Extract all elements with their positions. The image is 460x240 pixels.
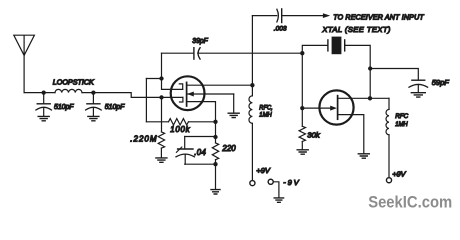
svg-text:RFC,: RFC, (259, 105, 273, 112)
wire Q1 drain (187, 84, 253, 86)
transistor Q2 circle (319, 90, 353, 124)
Q1 substrate lead (187, 93, 234, 95)
svg-text:.003: .003 (274, 26, 287, 33)
svg-text:TO RECEIVER ANT INPUT: TO RECEIVER ANT INPUT (333, 14, 424, 22)
capacitor .003 (274, 9, 287, 33)
node source / 100k junction (213, 120, 217, 124)
wire Q1 source (187, 102, 216, 122)
resistor 220 (212, 122, 236, 164)
Q1 substrate arrow (187, 92, 194, 97)
svg-text:30k: 30k (307, 130, 321, 139)
wire 39pF drop to gate1 node (161, 53, 163, 78)
svg-text:1MH: 1MH (395, 121, 408, 128)
wire drain vertical riser (251, 16, 253, 86)
wire 220 bottom to ground (215, 164, 217, 189)
node gate1 junction (159, 76, 163, 80)
wire xtal right branch (345, 45, 371, 68)
svg-text:1MH: 1MH (259, 112, 272, 119)
wire left branch vertical to 100k (145, 79, 147, 122)
Q2 channel bar (337, 96, 339, 120)
svg-text:LOOPSTICK: LOOPSTICK (53, 78, 95, 87)
ground under .220M (156, 158, 167, 162)
capacitor C 510pF right (86, 93, 125, 117)
svg-text:59pF: 59pF (432, 78, 449, 87)
capacitor 39pF (192, 36, 208, 59)
svg-text:220: 220 (221, 144, 236, 153)
node 59pF junction (368, 66, 372, 70)
Q1 channel bar (186, 82, 188, 106)
wire gate2 lead (162, 96, 183, 98)
ground under 30k (297, 150, 308, 154)
node Q2 gate junction (300, 106, 304, 110)
resistor 30k (299, 108, 321, 150)
capacitor C 510pF left (36, 93, 74, 117)
wire main horizontal (24, 92, 55, 94)
node at left 510pF (42, 90, 46, 94)
terminal +9V left (250, 181, 255, 186)
svg-text:100k: 100k (170, 125, 190, 134)
Q2 gate arrow (330, 106, 337, 111)
node drain junction (250, 83, 254, 87)
wire loopstick to step (82, 93, 162, 98)
node xtal junction (300, 51, 304, 55)
svg-text:39pF: 39pF (192, 36, 208, 45)
ground under Q1 substrate (228, 113, 239, 117)
antenna (14, 35, 35, 55)
wire Q2 drain (338, 97, 389, 99)
capacitor 59pF (409, 78, 449, 93)
svg-text:XTAL (SEE TEXT): XTAL (SEE TEXT) (321, 25, 390, 34)
resistor 100k (146, 119, 215, 134)
svg-text:+9V: +9V (256, 166, 271, 175)
inductor LOOPSTICK (55, 89, 82, 92)
ground under -9V (274, 198, 283, 202)
svg-text:510pF: 510pF (54, 104, 74, 111)
node gate2 junction (159, 95, 163, 99)
wire Q2 gate lead (302, 107, 330, 109)
wire 39pF left lead (162, 52, 194, 54)
arrow to receiver (323, 13, 330, 18)
wire xtal node down to Q2 gate (301, 53, 303, 108)
wire .003 to arrow (282, 15, 323, 17)
node at right 510pF (91, 90, 95, 94)
wire Q2 source (338, 115, 364, 154)
svg-text:+9V: +9V (392, 170, 406, 179)
wire gate1 node to left branch (146, 78, 161, 80)
gate1 electrode of Q1 (179, 84, 182, 90)
inductor RFC1 1MH (drain choke) (249, 85, 273, 123)
transistor Q1 dual-gate MOSFET circle (171, 76, 205, 110)
ground under left 510pF (38, 116, 49, 120)
ground under 59pF (411, 93, 425, 97)
wire RFC1 to +9V terminal (251, 123, 253, 180)
node 220 bottom junction (213, 162, 217, 166)
ground under Q2 source (358, 154, 369, 158)
svg-text:RFC: RFC (395, 113, 408, 120)
wire gate1 lead (162, 79, 183, 90)
svg-text:.04: .04 (194, 148, 206, 157)
node Q2 drain junction (368, 96, 372, 100)
resistor .220M (130, 97, 164, 157)
wire xtal right to Q2 drain (369, 69, 371, 99)
wire 39pF right lead to xtal node (198, 52, 303, 54)
svg-text:-9V: -9V (283, 178, 299, 187)
wire RFC2 to +9V terminal (388, 135, 390, 178)
wire top to .003 (252, 15, 276, 17)
capacitor .04 (parallel branch) (176, 137, 216, 165)
crystal XTAL (321, 25, 390, 54)
gate2 electrode of Q1 (180, 97, 183, 102)
svg-text:510pF: 510pF (105, 104, 125, 111)
wire to 59pF (370, 69, 418, 81)
svg-text:.220M: .220M (130, 135, 157, 144)
wire xtal left branch (302, 45, 328, 53)
ground under right 510pF (88, 116, 99, 120)
terminal -9V (268, 179, 273, 184)
wire antenna lead (23, 55, 25, 92)
inductor RFC2 1MH (Q2 drain choke) (386, 98, 408, 135)
terminal +9V right (386, 178, 391, 183)
wire substrate to ground (233, 94, 235, 113)
ground under 220 (211, 190, 220, 194)
wire -9V to ground (273, 182, 279, 198)
svg-text:SeekIC.com: SeekIC.com (368, 194, 452, 212)
